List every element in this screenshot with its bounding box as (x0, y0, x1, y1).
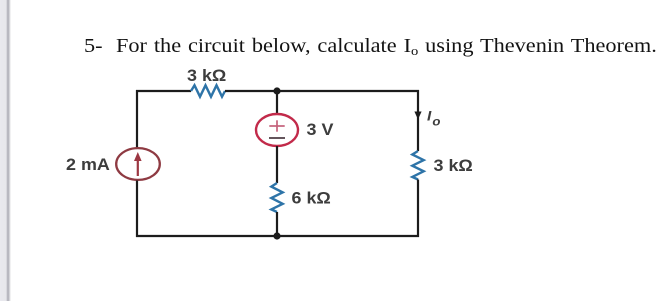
svg-text:Io: Io (427, 109, 441, 128)
voltage source V1 3 V (ellipse with plus and minus) (256, 114, 298, 146)
page edge shading (decorative) (0, 0, 12, 301)
svg-text:2 mA: 2 mA (66, 154, 110, 173)
node: top-middle junction dot (273, 87, 280, 94)
resistor R1 3 kOhm (top, horizontal zigzag) (191, 85, 225, 96)
problem statement text (84, 36, 656, 56)
wire: middle branch top (junction to V source) (276, 91, 278, 115)
wire: right branch lower (417, 180, 419, 238)
wire: top-left horizontal segment (136, 90, 191, 92)
current direction arrowhead Io (414, 112, 421, 120)
svg-text:3 kΩ: 3 kΩ (434, 155, 473, 174)
wire: middle branch between V source and R2 (276, 146, 278, 183)
wire: bottom horizontal (136, 235, 419, 237)
wire: top-right horizontal segment (225, 90, 419, 92)
wire: left branch upper (136, 90, 138, 149)
wire: left branch lower (136, 181, 138, 238)
wire: middle branch bottom (276, 212, 278, 236)
svg-text:6 kΩ: 6 kΩ (292, 188, 331, 207)
node: bottom-middle junction dot (273, 232, 280, 239)
resistor R2 6 kOhm (middle, vertical zigzag) (271, 183, 282, 212)
svg-text:3 kΩ: 3 kΩ (187, 65, 226, 84)
current source I1 2 mA (ellipse with up arrow) (116, 148, 160, 180)
svg-text:3 V: 3 V (307, 119, 334, 138)
resistor R3 3 kOhm (right, vertical zigzag) (412, 151, 423, 180)
wire: right branch upper (417, 90, 419, 151)
